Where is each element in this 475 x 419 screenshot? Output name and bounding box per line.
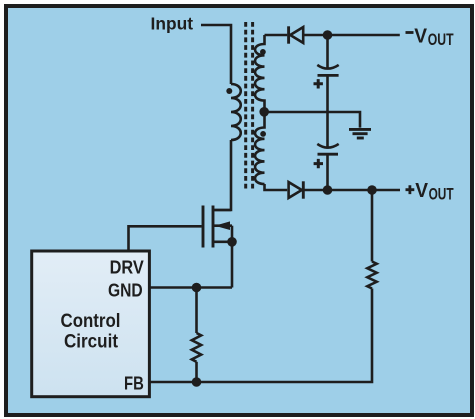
wire primary bottom to MOSFET drain (215, 140, 232, 210)
capacitor C2 plus sign (314, 159, 323, 168)
wire top rail to diode D1 (265, 34, 288, 37)
diode D1 triangle (290, 27, 303, 43)
svg-text:OUT: OUT (428, 30, 454, 49)
ground (349, 129, 371, 138)
wire MOSFET source down to GND rail (231, 226, 234, 288)
svg-text:FB: FB (124, 373, 144, 393)
svg-text:V: V (415, 179, 428, 202)
polarity dot secondary top (260, 49, 266, 55)
svg-text:OUT: OUT (429, 184, 455, 203)
diode D2 triangle (289, 182, 302, 198)
polarity dot primary (226, 88, 232, 94)
control circuit box U1 (32, 251, 150, 397)
wire center tap rail to ground (264, 112, 360, 128)
resistor R2 (192, 333, 201, 362)
node C2 / +VOUT rail (323, 185, 333, 195)
node GND / resistor R2 (192, 283, 202, 293)
transistor Q1 body arrow line (214, 224, 232, 227)
transformer T1 primary winding (231, 84, 241, 140)
transformer T1 secondary bottom winding (255, 117, 264, 185)
wire C2 to +VOUT rail (326, 154, 329, 190)
capacitor C2 straight plate (318, 153, 339, 156)
capacitor C1 plus sign (314, 79, 323, 88)
transformer core line left (244, 22, 247, 190)
wire diode D1 to -VOUT (303, 34, 400, 37)
wire +VOUT node down to resistor R1 (371, 190, 374, 262)
diode D1 cathode bar (287, 26, 290, 43)
wire diode D2 to +VOUT (303, 189, 400, 192)
svg-text:Control: Control (61, 310, 121, 332)
wire GND node to resistor R2 (195, 288, 198, 334)
wire DRV to MOSFET gate (129, 226, 202, 250)
polarity dot secondary bottom (260, 131, 266, 137)
node -VOUT / C1 (323, 30, 333, 40)
wire C1 to rail crossing to C2 (326, 76, 329, 149)
transistor Q1 channel bar (212, 206, 215, 248)
svg-text:Circuit: Circuit (64, 331, 118, 353)
diode D2 cathode bar (302, 181, 305, 198)
node FB rail / R2 (192, 377, 202, 387)
wire resistor R2 to FB rail (195, 362, 198, 382)
svg-text:GND: GND (108, 281, 143, 301)
label -VOUT (406, 31, 414, 34)
label +VOUT (406, 185, 415, 194)
transistor Q1 source stub (214, 241, 232, 244)
capacitor C1 curved plate (317, 65, 338, 69)
wire resistor R1 to FB rail (150, 289, 373, 383)
wire secondary bottom to diode D2 (265, 184, 288, 190)
node feedback tap (367, 185, 377, 195)
transformer T1 secondary top winding (255, 35, 264, 108)
node center tap (259, 107, 269, 117)
transistor Q1 drain stub (214, 209, 231, 212)
svg-text:V: V (414, 25, 427, 48)
resistor R1 (367, 262, 376, 289)
transformer core line right (251, 22, 254, 190)
wire input to primary (201, 25, 231, 84)
capacitor C1 straight plate (318, 74, 339, 77)
transistor Q1 gate bar (202, 206, 205, 248)
svg-text:Input: Input (151, 14, 194, 34)
transistor Q1 body arrow (215, 221, 230, 230)
svg-text:DRV: DRV (110, 258, 144, 278)
capacitor C2 curved plate (317, 144, 338, 148)
node MOSFET source (227, 237, 237, 247)
wire node to C1 (326, 35, 329, 70)
wire GND rail (150, 286, 233, 289)
